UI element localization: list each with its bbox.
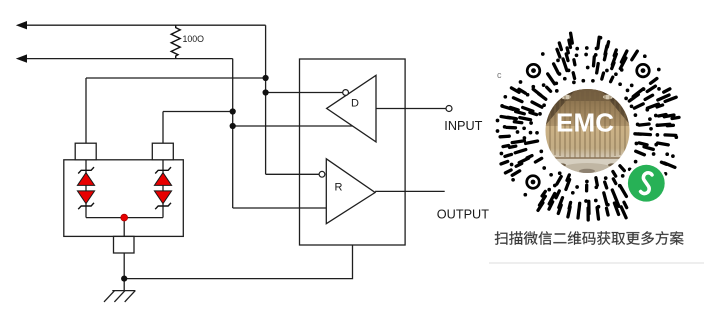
TVS common red node — [121, 214, 128, 221]
TVS array box — [64, 160, 184, 237]
ground junction dot — [121, 276, 127, 282]
junction dot B2 — [230, 123, 236, 129]
wire B to R input — [233, 207, 327, 209]
wire box stub to ground — [124, 245, 352, 279]
svg-text:c: c — [497, 70, 502, 80]
wire A bus line — [24, 25, 446, 290]
svg-text:OUTPUT: OUTPUT — [437, 208, 489, 222]
TVS inner wires — [86, 160, 163, 237]
wire OUTPUT — [375, 190, 445, 192]
wire A vertical — [265, 25, 267, 174]
wire A to R bubble — [266, 173, 319, 175]
junction dot A1 — [263, 75, 269, 81]
svg-text:R: R — [335, 182, 343, 194]
TVS diode pair right — [154, 167, 171, 209]
logo S swirl — [634, 171, 659, 195]
wire TVS bottom pin to ground dot — [123, 253, 125, 291]
wire to D lower edge — [233, 125, 353, 127]
caption 扫描微信二维码获取更多方案 — [495, 231, 684, 245]
resistor R 100O — [171, 25, 180, 58]
junction dot B1 — [230, 108, 236, 114]
wire B bus line — [24, 58, 233, 60]
receiver R triangle — [326, 159, 375, 224]
arrowhead B — [16, 54, 27, 62]
driver D triangle — [327, 75, 376, 142]
wechat logo white ring — [626, 163, 667, 204]
transceiver box U1 — [300, 59, 406, 245]
wire B vertical — [232, 59, 234, 208]
svg-text:INPUT: INPUT — [444, 119, 482, 133]
TVS bottom pin — [114, 236, 135, 253]
wechat mini program logo — [628, 165, 665, 202]
svg-text:100O: 100O — [183, 34, 205, 44]
QR center photo — [545, 88, 631, 175]
wire INPUT — [376, 108, 446, 110]
wire TVS pin2 — [163, 112, 233, 144]
svg-text:D: D — [351, 98, 359, 110]
wire to D bubble — [266, 92, 343, 94]
faint divider line — [489, 262, 704, 264]
junction dot A2 — [263, 89, 269, 95]
QR code pattern — [498, 33, 680, 220]
arrowhead A — [16, 21, 27, 29]
INPUT terminal circle — [446, 106, 452, 112]
ground symbol — [104, 291, 135, 302]
TVS pin 1 — [75, 143, 96, 160]
D bubble — [343, 90, 349, 96]
TVS pin 2 — [152, 143, 173, 160]
wire TVS pin1 — [86, 78, 266, 143]
svg-text:EMC: EMC — [556, 108, 614, 138]
R bubble — [319, 171, 325, 177]
TVS diode pair left — [77, 167, 94, 209]
